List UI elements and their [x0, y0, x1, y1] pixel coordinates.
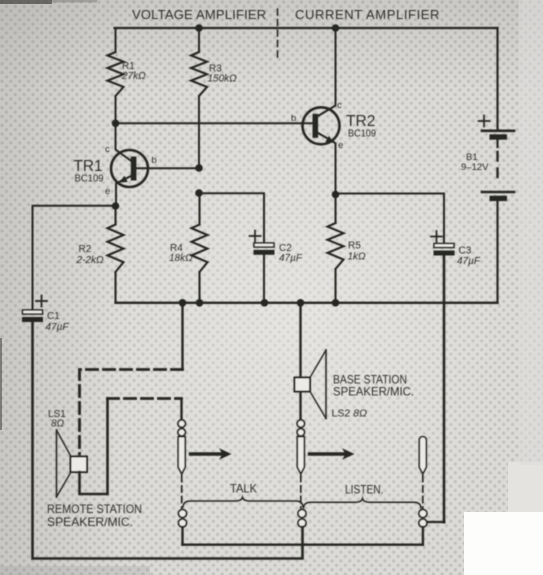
svg-text:LISTEN.: LISTEN. [345, 483, 384, 497]
svg-text:2-2kΩ: 2-2kΩ [76, 255, 104, 266]
node C2 tap junction [195, 189, 203, 197]
wire C2 tap [199, 193, 264, 243]
node LS2 column junction [297, 299, 305, 307]
svg-text:LS2 8Ω: LS2 8Ω [332, 409, 368, 420]
svg-text:SPEAKER/MIC.: SPEAKER/MIC. [47, 515, 133, 529]
svg-text:b: b [152, 155, 157, 166]
plug P3 listen [419, 437, 426, 508]
transistor TR1 [111, 123, 199, 206]
wire dashed run to remote speaker [80, 370, 183, 455]
node talk column junction [179, 299, 187, 307]
svg-text:b: b [291, 113, 296, 124]
wire C3 to ground and listen socket [443, 256, 446, 522]
wire ground rail [116, 302, 498, 304]
wire top supply rail [115, 27, 498, 29]
brace TALK [183, 497, 303, 507]
wire socket S3 to ground line [427, 521, 444, 523]
wire C1 branch [33, 206, 116, 310]
node TR2 emitter junction [332, 191, 340, 199]
plug P2 base station [297, 420, 304, 508]
resistor R4 [192, 193, 208, 303]
svg-text:1kΩ: 1kΩ [348, 252, 367, 263]
wire base line to TR2 [116, 122, 313, 124]
wire remote speaker return loop [80, 399, 108, 495]
svg-text:BC109: BC109 [75, 173, 104, 185]
arrow talk plug [191, 448, 232, 460]
wire R1 bottom lead [115, 96, 117, 123]
wire TR2 emitter to C3 [336, 194, 445, 244]
wire dashed run to talk plug [108, 397, 182, 400]
svg-text:e: e [105, 186, 110, 197]
transistor TR2 [303, 28, 340, 195]
resistor R3 [191, 52, 207, 96]
speaker LS1 [57, 430, 88, 497]
svg-text:47µF: 47µF [457, 256, 481, 267]
brace LISTEN [304, 499, 422, 508]
wire talk plug lead [180, 399, 182, 420]
wire R3 bottom lead to TR1 base node [198, 96, 200, 168]
battery B1 [479, 28, 515, 303]
svg-text:150kΩ: 150kΩ [208, 74, 238, 85]
svg-text:CURRENT AMPLIFIER: CURRENT AMPLIFIER [295, 7, 440, 22]
capacitor C1 [22, 296, 47, 323]
socket S2 [298, 510, 306, 528]
svg-text:27kΩ: 27kΩ [121, 71, 146, 82]
resistor R5 [328, 195, 344, 304]
socket S3 [419, 510, 427, 528]
node TR1 emitter junction [112, 202, 120, 210]
wire R1 top lead [115, 28, 117, 52]
svg-text:C1: C1 [47, 311, 60, 322]
resistor R1 [108, 52, 124, 96]
node R5 ground junction [332, 299, 340, 307]
svg-text:REMOTE STATION: REMOTE STATION [47, 502, 142, 516]
svg-text:c: c [337, 100, 342, 111]
wire talk column solid drop [181, 303, 183, 370]
wire socket S1 drop [181, 527, 183, 545]
svg-text:R5: R5 [348, 241, 361, 252]
wire socket S3 drop to common [422, 527, 424, 545]
svg-text:c: c [105, 144, 110, 155]
svg-text:47µF: 47µF [46, 322, 70, 333]
svg-text:R2: R2 [79, 244, 92, 255]
svg-text:C3: C3 [459, 246, 472, 257]
node TR2 collector top junction [332, 24, 340, 32]
wire socket S2 to C1 return [33, 323, 303, 559]
node R3 top junction [195, 24, 203, 32]
plug P1 talk [178, 420, 185, 508]
svg-text:VOLTAGE AMPLIFIER: VOLTAGE AMPLIFIER [132, 7, 266, 22]
svg-text:18kΩ: 18kΩ [169, 253, 193, 264]
svg-text:47µF: 47µF [279, 253, 303, 264]
wire R3 top lead [198, 28, 200, 52]
node R4 ground junction [196, 299, 204, 307]
speaker LS2 [295, 350, 327, 419]
socket S1 [179, 510, 187, 528]
wire LS2 column [299, 303, 301, 420]
wire socket common line [183, 544, 423, 546]
svg-text:TALK: TALK [230, 482, 257, 496]
capacitor C2 [250, 231, 275, 304]
node R1 bottom / TR2 base junction [112, 120, 120, 128]
node TR1 base junction [195, 164, 203, 172]
svg-text:8Ω: 8Ω [51, 419, 65, 430]
resistor R2 [108, 206, 124, 303]
svg-text:SPEAKER/MIC.: SPEAKER/MIC. [333, 385, 414, 399]
svg-text:BC109: BC109 [348, 128, 376, 140]
separator dashed line [277, 9, 279, 58]
arrow base plug [310, 448, 355, 460]
svg-text:9–12V: 9–12V [461, 162, 489, 173]
svg-text:e: e [338, 140, 343, 151]
node C2 ground junction [261, 299, 269, 307]
capacitor C3 [431, 231, 455, 256]
